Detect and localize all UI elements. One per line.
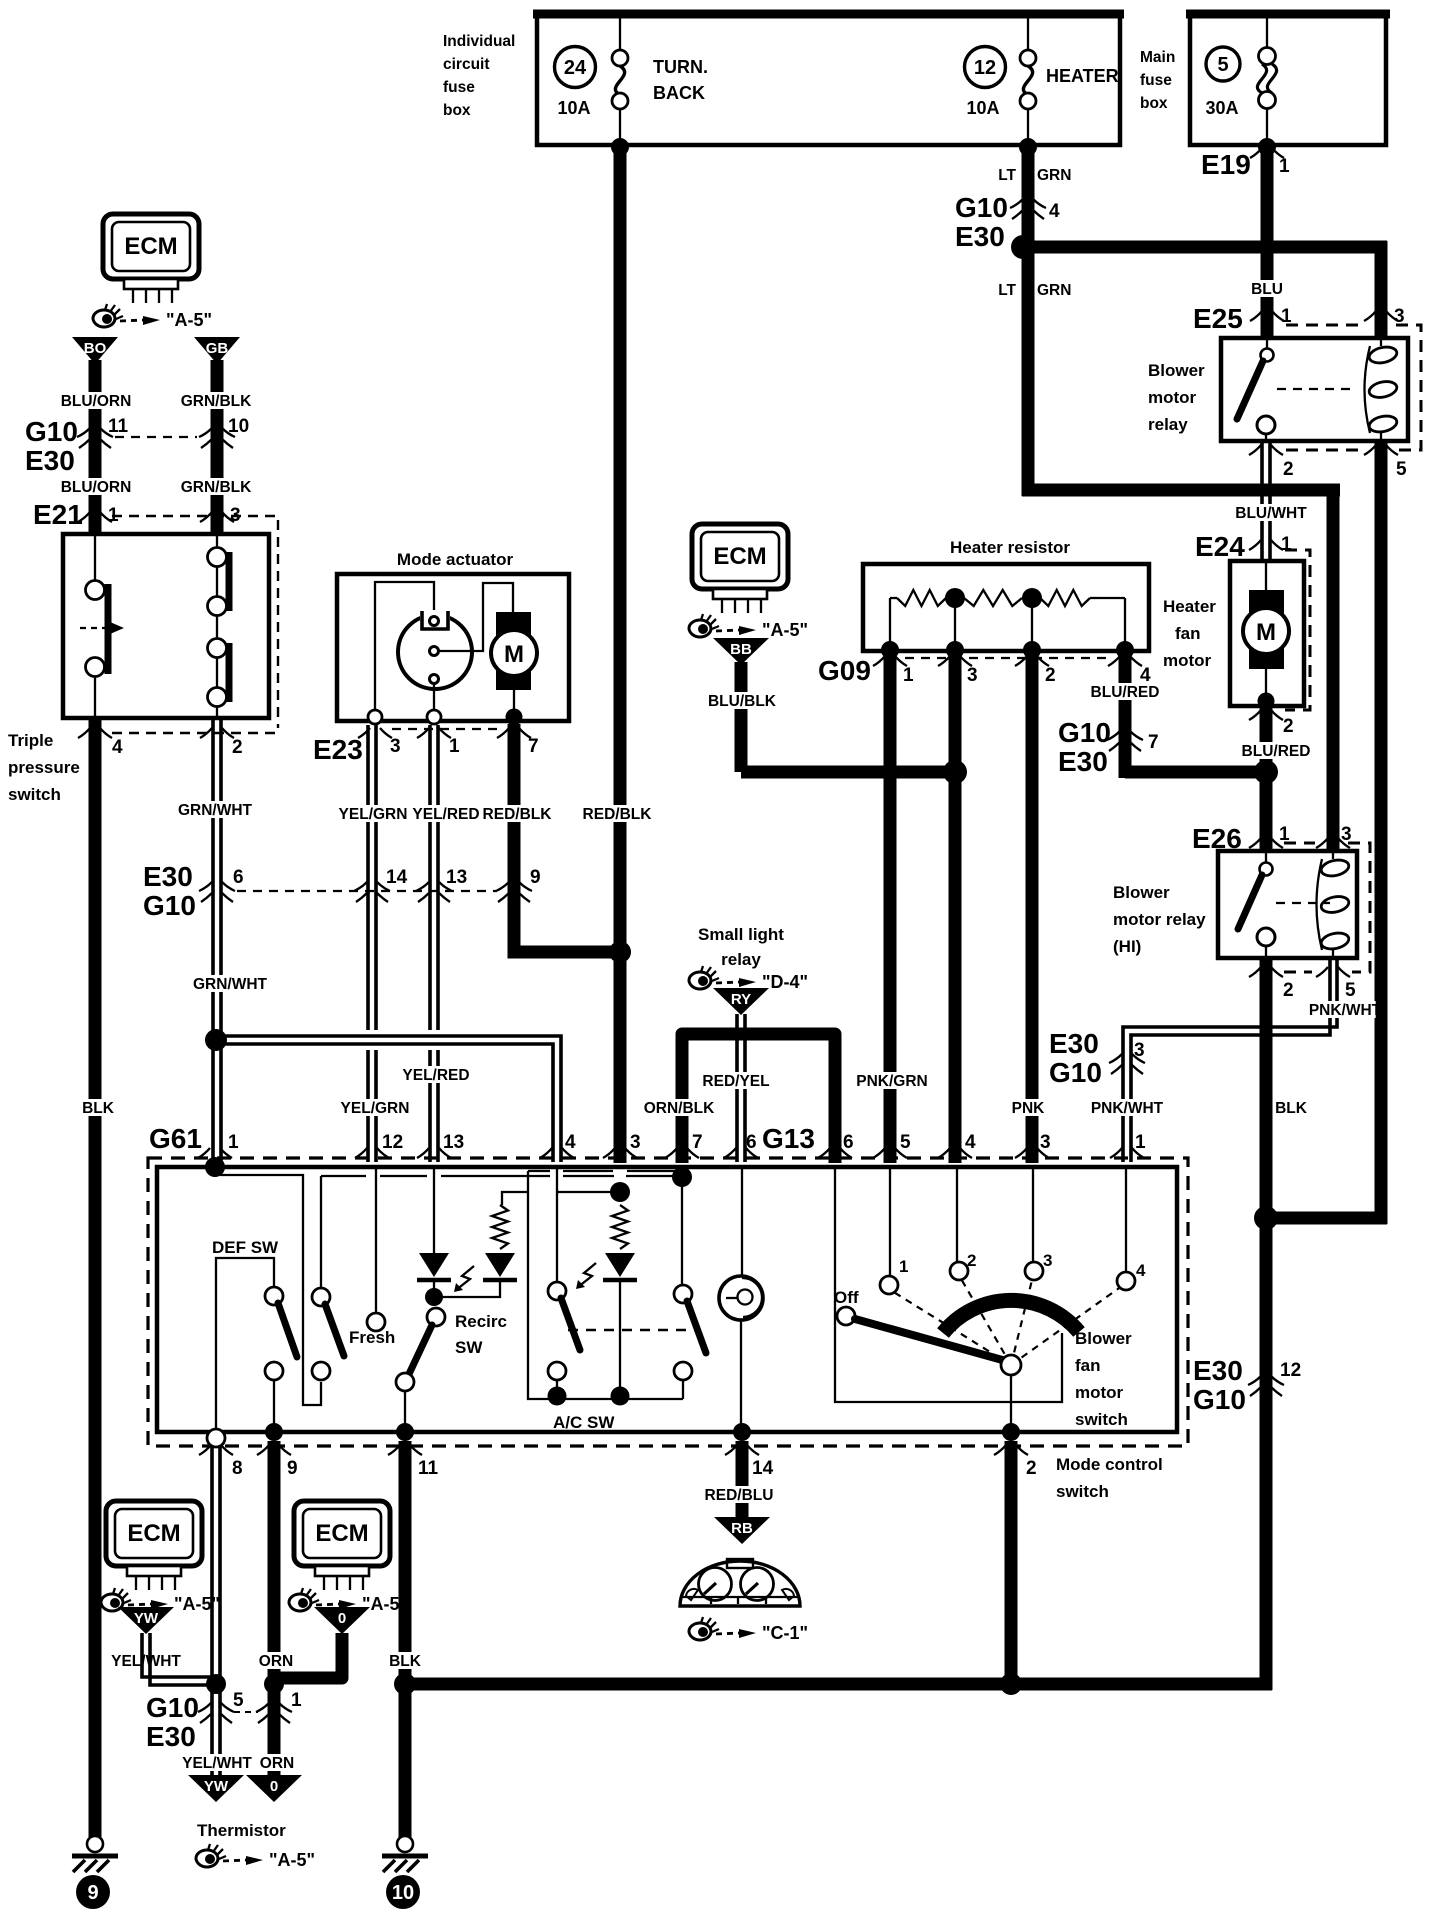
junction node YEL/WHT xyxy=(206,1674,226,1694)
svg-text:"C-1": "C-1" xyxy=(762,1623,808,1643)
svg-text:4: 4 xyxy=(1140,665,1151,686)
connector E30 G10 pin 3 on PNK/WHT xyxy=(1049,1028,1145,1088)
svg-text:"A-5": "A-5" xyxy=(166,310,212,330)
svg-text:4: 4 xyxy=(965,1132,976,1153)
wire RED/BLK E23 pin 7 joining main RED/BLK xyxy=(514,724,614,952)
heater resistor box xyxy=(863,538,1149,651)
svg-text:9: 9 xyxy=(287,1458,298,1479)
destination triangle O thermistor xyxy=(246,1775,302,1802)
svg-text:Blower: Blower xyxy=(1148,361,1205,380)
LED recirc indicator xyxy=(417,1167,451,1290)
wire origin triangle RY xyxy=(713,988,769,1015)
node G61 pin 7 xyxy=(672,1167,692,1187)
svg-text:Blower: Blower xyxy=(1113,883,1170,902)
connector E24 pin 1 xyxy=(1195,531,1310,710)
mode control switch solid box xyxy=(157,1167,1177,1432)
svg-text:BB: BB xyxy=(730,641,752,658)
svg-text:2: 2 xyxy=(1045,665,1056,686)
connector E24 pin 2 xyxy=(1249,710,1294,737)
svg-text:G10: G10 xyxy=(1058,717,1111,748)
connector E26 pins 2 5 xyxy=(1249,967,1356,1001)
relay E26 coil xyxy=(1317,851,1351,958)
svg-text:ECM: ECM xyxy=(124,233,177,260)
svg-text:Individual: Individual xyxy=(443,33,515,50)
switch DEF SW xyxy=(212,1238,297,1428)
svg-text:ORN/BLK: ORN/BLK xyxy=(644,1100,715,1117)
switch A/C SW pole 2 xyxy=(553,1187,706,1432)
wire A/C pole1 feed xyxy=(557,1167,612,1282)
svg-text:0: 0 xyxy=(338,1610,346,1627)
svg-text:14: 14 xyxy=(386,867,408,888)
svg-text:3: 3 xyxy=(1043,1251,1052,1270)
connector E25 pins 2 5 xyxy=(1249,445,1407,480)
svg-text:motor relay: motor relay xyxy=(1113,910,1206,929)
svg-text:fuse: fuse xyxy=(1140,72,1172,89)
svg-text:E25: E25 xyxy=(1193,303,1243,334)
svg-text:3: 3 xyxy=(230,505,241,526)
svg-text:10: 10 xyxy=(392,1882,414,1904)
svg-text:1: 1 xyxy=(1281,306,1292,327)
pressure switch right contacts xyxy=(208,536,230,718)
relay E25 blower motor relay box xyxy=(1221,338,1408,441)
connector E30 G10 pin 12 xyxy=(1193,1355,1301,1415)
wire pin 12 to Fresh contact xyxy=(375,1167,377,1313)
wire YEL/GRN E23 pin 3 to G61 pin 12 xyxy=(368,725,376,1030)
node A/C branch xyxy=(610,1182,630,1202)
svg-text:12: 12 xyxy=(974,57,996,79)
svg-text:box: box xyxy=(443,102,471,119)
svg-text:A/C SW: A/C SW xyxy=(553,1413,615,1432)
svg-text:E23: E23 xyxy=(313,734,363,765)
svg-text:E30: E30 xyxy=(1193,1355,1243,1386)
svg-text:7: 7 xyxy=(692,1132,703,1153)
motor E24 heater fan motor box xyxy=(1230,561,1304,706)
connector E23 pins below xyxy=(313,728,539,765)
svg-text:E30: E30 xyxy=(146,1721,196,1752)
svg-text:BLK: BLK xyxy=(389,1653,422,1670)
svg-text:E30: E30 xyxy=(25,445,75,476)
resistor R1 xyxy=(890,597,897,599)
LED arrows mark recirc xyxy=(456,1266,474,1290)
svg-text:Small light: Small light xyxy=(698,925,784,944)
svg-text:3: 3 xyxy=(1040,1132,1051,1153)
svg-text:circuit: circuit xyxy=(443,56,490,73)
svg-text:2: 2 xyxy=(1283,980,1294,1001)
svg-text:1: 1 xyxy=(1279,824,1290,845)
wire YEL/RED E23 pin 1 to G61 pin 13 xyxy=(430,725,438,1030)
blower switch contact feeds xyxy=(889,1167,891,1277)
svg-text:BLU/BLK: BLU/BLK xyxy=(708,693,777,710)
destination triangle YW thermistor xyxy=(188,1775,244,1802)
svg-text:14: 14 xyxy=(752,1458,774,1479)
svg-text:4: 4 xyxy=(1136,1261,1146,1280)
connector E21 pins 4 and 2 below xyxy=(78,728,243,758)
eye reference D-4 xyxy=(689,966,808,992)
wire YEL/WHT elbow to pin 8 xyxy=(142,1633,216,1685)
wire E25 pin 5 down xyxy=(1375,441,1388,1224)
svg-text:BLU/WHT: BLU/WHT xyxy=(1235,505,1307,522)
svg-text:Recirc: Recirc xyxy=(455,1312,507,1331)
svg-text:3: 3 xyxy=(390,736,401,757)
wire actuator pin 3 internal xyxy=(375,582,434,716)
svg-text:pressure: pressure xyxy=(8,758,80,777)
svg-text:2: 2 xyxy=(967,1251,976,1270)
svg-text:E24: E24 xyxy=(1195,531,1245,562)
eye reference A-5 for ECM xyxy=(93,304,212,330)
blower fan motor switch sub-box wire xyxy=(835,1167,1062,1402)
switch Fresh xyxy=(312,1288,395,1380)
wire mode pin 2 down xyxy=(1005,1441,1018,1684)
op-amp: ECM module middle xyxy=(692,524,788,613)
junction node mode pin 2 xyxy=(1000,1673,1022,1695)
connector E25 pins 1 3 xyxy=(1193,303,1421,450)
op-amp: ECM module bottom-left xyxy=(106,1501,202,1590)
svg-text:motor: motor xyxy=(1163,651,1212,670)
svg-text:1: 1 xyxy=(1279,156,1290,177)
svg-text:G10: G10 xyxy=(25,416,78,447)
svg-text:0: 0 xyxy=(270,1778,278,1795)
svg-text:Mode actuator: Mode actuator xyxy=(397,550,514,569)
wire BLU/RED heater pin 4 xyxy=(1119,651,1132,778)
svg-text:RY: RY xyxy=(731,991,751,1008)
wire wiper to motor xyxy=(439,583,513,651)
label BLU xyxy=(1253,280,1282,297)
svg-text:13: 13 xyxy=(446,867,467,888)
svg-text:10: 10 xyxy=(228,416,249,437)
svg-text:7: 7 xyxy=(528,736,539,757)
svg-text:switch: switch xyxy=(1056,1482,1109,1501)
mode control switch dashed boundary xyxy=(148,1158,1188,1446)
LED arrows mark A/C xyxy=(578,1263,596,1287)
wire BLK bottom run to E26 pin 2 net xyxy=(405,1678,1272,1691)
svg-text:LT: LT xyxy=(998,167,1016,184)
svg-text:YEL/GRN: YEL/GRN xyxy=(339,806,408,823)
svg-text:12: 12 xyxy=(1280,1360,1301,1381)
svg-text:Thermistor: Thermistor xyxy=(197,1821,286,1840)
wire BLK from E21 pin 4 to ground 9 xyxy=(89,718,102,1838)
wire long feed line B xyxy=(321,1176,676,1288)
svg-text:G13: G13 xyxy=(762,1123,815,1154)
svg-text:switch: switch xyxy=(8,785,61,804)
wire RED/BLK from fuse 24 down to G61 pin 3 xyxy=(614,145,627,1163)
wire BLK E26 pin 2 down xyxy=(1260,958,1273,1690)
svg-text:GRN/BLK: GRN/BLK xyxy=(181,393,252,410)
svg-text:M: M xyxy=(504,641,524,668)
relay E26 switch contact xyxy=(1238,851,1330,958)
svg-text:3: 3 xyxy=(1134,1040,1145,1061)
wire BLK pin 11 to ground 10 xyxy=(399,1441,412,1838)
svg-text:1: 1 xyxy=(228,1132,239,1153)
connector E26 pins 1 3 xyxy=(1192,823,1370,972)
junction node LT GRN xyxy=(1011,235,1035,259)
label YEL/GRN lower xyxy=(344,1099,405,1116)
connector G09 pins 1 3 2 4 xyxy=(818,655,1151,686)
svg-text:relay: relay xyxy=(1148,415,1188,434)
lamp illumination bulb xyxy=(719,1167,763,1428)
wire PNK heater pin 2 to G13 pin 3 xyxy=(1026,651,1039,1163)
svg-text:YW: YW xyxy=(134,1610,159,1627)
svg-text:11: 11 xyxy=(418,1458,439,1479)
switch A/C SW pole 1 xyxy=(548,1282,580,1395)
svg-text:8: 8 xyxy=(232,1458,243,1479)
wire PNK/WHT E26 pin 5 to G61 pin 1 xyxy=(1123,958,1337,1162)
junction node RED/BLK xyxy=(609,941,631,963)
triple pressure switch E21 box xyxy=(63,534,269,718)
svg-text:5: 5 xyxy=(1217,54,1228,76)
svg-text:motor: motor xyxy=(1148,388,1197,407)
svg-text:Heater: Heater xyxy=(1163,597,1216,616)
resistor + diode recirc branch xyxy=(440,1205,517,1297)
eye reference C-1 xyxy=(689,1617,808,1643)
svg-text:1: 1 xyxy=(903,665,914,686)
svg-text:ECM: ECM xyxy=(315,1520,368,1547)
svg-text:fan: fan xyxy=(1175,624,1201,643)
svg-text:"A-5": "A-5" xyxy=(174,1594,220,1614)
junction node BLK pin 11 xyxy=(394,1673,416,1695)
svg-text:LT: LT xyxy=(998,282,1016,299)
labels BLU/ORN GRN/BLK lower xyxy=(65,478,126,495)
svg-text:4: 4 xyxy=(1049,201,1060,222)
connector E21 pins 1 and 3 xyxy=(33,499,278,733)
connector G10 E30 pin 7 xyxy=(1058,717,1159,777)
fuse 12 10A HEATER xyxy=(965,16,1119,143)
svg-text:SW: SW xyxy=(455,1338,483,1357)
small light relay reference xyxy=(698,925,784,969)
connector G61 / G13 pin row xyxy=(149,1123,1146,1158)
rotary dashed positions xyxy=(892,1276,1122,1365)
node recirc xyxy=(425,1288,443,1306)
svg-text:PNK/WHT: PNK/WHT xyxy=(1309,1002,1382,1019)
svg-text:4: 4 xyxy=(565,1132,576,1153)
svg-text:motor: motor xyxy=(1075,1383,1124,1402)
svg-text:TURN.: TURN. xyxy=(653,57,708,77)
svg-text:RED/YEL: RED/YEL xyxy=(702,1073,769,1090)
heater resistor taps and terminals xyxy=(881,588,1134,659)
svg-text:"A-5": "A-5" xyxy=(762,620,808,640)
svg-text:3: 3 xyxy=(967,665,978,686)
svg-text:30A: 30A xyxy=(1205,98,1238,118)
labels YEL/WHT ORN lower xyxy=(186,1754,247,1771)
svg-text:RED/BLK: RED/BLK xyxy=(483,806,553,823)
connector G10 E30 pins 11 and 10 xyxy=(25,416,249,476)
svg-text:9: 9 xyxy=(530,867,541,888)
svg-text:Fresh: Fresh xyxy=(349,1328,395,1347)
wire BLU/WHT E25 pin 2 to E24 pin 1 xyxy=(1262,441,1270,561)
svg-text:2: 2 xyxy=(232,737,243,758)
junction node ORN xyxy=(264,1674,284,1694)
svg-text:GRN/WHT: GRN/WHT xyxy=(193,976,268,993)
node G61 pin 1 entry xyxy=(205,1157,225,1177)
wire ORN/BLK bridge G61 pin 7 to G13 pin 6 xyxy=(682,1034,835,1163)
connector E30 G10 pins 6 14 13 9 xyxy=(143,861,541,921)
switch blower fan Off arm xyxy=(834,1288,1021,1428)
svg-text:Heater resistor: Heater resistor xyxy=(950,538,1070,557)
svg-text:1: 1 xyxy=(291,1690,302,1711)
wire LT GRN branch to E25 pin 3 (BLU) xyxy=(1023,241,1387,254)
main fuse box xyxy=(1140,12,1390,145)
fuse 24 10A TURN BACK xyxy=(555,16,709,143)
blower switch contacts 1-4 xyxy=(880,1251,1146,1294)
rotary arc xyxy=(943,1300,1079,1333)
terminals E23 pins 3 1 7 xyxy=(368,684,523,726)
wire LT GRN from fuse 12 xyxy=(1022,145,1035,496)
svg-text:Main: Main xyxy=(1140,49,1175,66)
svg-text:fan: fan xyxy=(1075,1356,1101,1375)
svg-text:BLU/RED: BLU/RED xyxy=(1242,743,1311,760)
svg-text:1: 1 xyxy=(899,1257,908,1276)
ground 9 xyxy=(72,1836,118,1909)
svg-text:ECM: ECM xyxy=(127,1520,180,1547)
junction node GRN/WHT branch xyxy=(205,1029,227,1051)
wire RED/BLU pin 14 xyxy=(736,1441,749,1517)
svg-text:6: 6 xyxy=(746,1132,757,1153)
wire origin triangle BB xyxy=(713,638,769,665)
wire BLU/BLK from BB to heater resistor pin 3 wire xyxy=(735,662,748,772)
ground 10 xyxy=(382,1836,428,1909)
svg-text:GRN/BLK: GRN/BLK xyxy=(181,479,252,496)
svg-text:YEL/WHT: YEL/WHT xyxy=(182,1755,252,1772)
actuator rotary disc xyxy=(398,610,472,689)
wire ORN elbow to pin 9 xyxy=(274,1633,342,1678)
svg-text:E21: E21 xyxy=(33,499,83,530)
svg-text:DEF SW: DEF SW xyxy=(212,1238,279,1257)
svg-text:7: 7 xyxy=(1148,732,1159,753)
motor M heater fan xyxy=(1243,561,1289,710)
svg-text:G10: G10 xyxy=(1193,1384,1246,1415)
svg-text:BLU/RED: BLU/RED xyxy=(1091,684,1160,701)
motor M of mode actuator xyxy=(491,612,537,712)
svg-text:3: 3 xyxy=(630,1132,641,1153)
svg-text:"A-5": "A-5" xyxy=(362,1594,408,1614)
svg-text:GRN: GRN xyxy=(1037,282,1071,299)
svg-text:1: 1 xyxy=(1135,1132,1146,1153)
svg-text:"D-4": "D-4" xyxy=(762,972,808,992)
svg-text:YW: YW xyxy=(204,1778,229,1795)
svg-text:ORN: ORN xyxy=(260,1755,294,1772)
wire BLU/ORN from BO to E21 pin 1 xyxy=(89,360,102,536)
svg-text:2: 2 xyxy=(1026,1458,1037,1479)
labels BLU/ORN GRN/BLK upper xyxy=(65,392,126,409)
wire heater pin 3 to G13 pin 4 xyxy=(949,651,962,1163)
svg-text:G10: G10 xyxy=(955,192,1008,223)
svg-text:BACK: BACK xyxy=(653,83,705,103)
op-amp: ECM module bottom-mid xyxy=(294,1501,390,1590)
svg-text:PNK/WHT: PNK/WHT xyxy=(1091,1100,1164,1117)
wire BLU main fuse to E25 pin 1 xyxy=(1261,145,1274,340)
individual circuit fuse box xyxy=(443,12,1124,145)
svg-text:6: 6 xyxy=(233,867,244,888)
svg-text:9: 9 xyxy=(87,1882,98,1904)
wire BLU/RED E24 pin 2 xyxy=(1260,706,1273,853)
svg-text:1: 1 xyxy=(1281,534,1292,555)
wire ORN pin 9 xyxy=(268,1441,281,1775)
junction node BLK / E25 pin 5 xyxy=(1254,1206,1278,1230)
wire PNK/GRN heater pin 1 to G13 pin 5 xyxy=(884,651,897,1163)
eye reference A-5 bottom-mid ECM xyxy=(289,1588,408,1614)
svg-text:Mode control: Mode control xyxy=(1056,1455,1163,1474)
eye reference A-5 thermistor xyxy=(196,1844,315,1870)
wire A/C sub-branch line A xyxy=(502,1171,683,1399)
svg-text:13: 13 xyxy=(443,1132,464,1153)
svg-text:G10: G10 xyxy=(146,1692,199,1723)
svg-text:3: 3 xyxy=(1394,306,1405,327)
svg-text:E30: E30 xyxy=(143,861,193,892)
node A/C bottom mid xyxy=(611,1387,630,1406)
wire GRN/WHT from E21 pin 2 down to G61 pin 1 xyxy=(213,718,221,1162)
resistor R3 xyxy=(1032,597,1040,599)
svg-text:YEL/WHT: YEL/WHT xyxy=(111,1653,181,1670)
eye reference A-5 for middle ECM xyxy=(689,614,808,640)
svg-text:RED/BLU: RED/BLU xyxy=(705,1487,774,1504)
svg-text:RB: RB xyxy=(731,1520,753,1537)
relay E25 switch contact xyxy=(1237,338,1356,441)
svg-text:Blower: Blower xyxy=(1075,1329,1132,1348)
switch Recirc SW xyxy=(396,1308,507,1428)
wire pin1 feed to Fresh switch xyxy=(220,1175,321,1405)
svg-text:YEL/GRN: YEL/GRN xyxy=(341,1100,410,1117)
svg-text:M: M xyxy=(1256,619,1276,646)
svg-text:BO: BO xyxy=(84,340,107,357)
svg-text:box: box xyxy=(1140,95,1168,112)
svg-text:GRN: GRN xyxy=(1037,167,1071,184)
svg-text:BLK: BLK xyxy=(1275,1100,1308,1117)
svg-text:12: 12 xyxy=(382,1132,403,1153)
connector G10 E30 pin 4 on LT GRN xyxy=(955,167,1071,252)
wire GRN/BLK from GB to E21 pin 3 xyxy=(211,360,224,536)
svg-text:PNK/GRN: PNK/GRN xyxy=(856,1073,927,1090)
labels YEL/GRN YEL/RED RED/BLK RED/BLK xyxy=(342,805,403,822)
svg-text:GB: GB xyxy=(206,340,229,357)
wire origin triangle YW xyxy=(118,1607,174,1634)
pressure switch left contact xyxy=(80,536,124,718)
instrument cluster icon xyxy=(680,1559,800,1606)
svg-text:(HI): (HI) xyxy=(1113,937,1141,956)
svg-text:G10: G10 xyxy=(1049,1057,1102,1088)
wire LT GRN lower branch to E26 pin 3 xyxy=(1022,484,1340,497)
junction node BLU/BLK xyxy=(943,760,967,784)
svg-text:PNK: PNK xyxy=(1012,1100,1046,1117)
svg-text:YEL/RED: YEL/RED xyxy=(412,806,479,823)
svg-text:Off: Off xyxy=(834,1288,859,1307)
resistor R2 xyxy=(955,597,964,599)
svg-text:1: 1 xyxy=(449,736,460,757)
svg-text:RED/BLK: RED/BLK xyxy=(583,806,653,823)
connector E19 pin 1 xyxy=(1201,148,1290,180)
svg-text:G61: G61 xyxy=(149,1123,202,1154)
svg-text:fuse: fuse xyxy=(443,79,475,96)
label PNK/WHT above G61 pin 1 xyxy=(1096,1099,1157,1116)
svg-text:ORN: ORN xyxy=(259,1653,293,1670)
svg-text:E30: E30 xyxy=(955,221,1005,252)
svg-text:10A: 10A xyxy=(966,98,999,118)
svg-text:3: 3 xyxy=(1341,824,1352,845)
node fuse 24 output terminal xyxy=(611,138,629,156)
svg-text:ECM: ECM xyxy=(713,543,766,570)
fuse 5 30A xyxy=(1205,16,1276,143)
svg-text:HEATER: HEATER xyxy=(1046,66,1119,86)
wire RED/YEL from RY to G61 pin 6 xyxy=(737,1014,745,1162)
svg-text:BLU/ORN: BLU/ORN xyxy=(61,479,132,496)
svg-text:1: 1 xyxy=(108,505,119,526)
wire origin triangle GB xyxy=(194,337,240,364)
svg-text:Triple: Triple xyxy=(8,731,53,750)
wire origin triangle BO xyxy=(72,337,118,364)
junction node BLU/RED xyxy=(1254,760,1278,784)
svg-text:YEL/RED: YEL/RED xyxy=(402,1067,469,1084)
wire DEF SW feed from pin 8 xyxy=(216,1258,274,1431)
label PNK/GRN xyxy=(861,1072,922,1089)
svg-text:2: 2 xyxy=(1283,716,1294,737)
